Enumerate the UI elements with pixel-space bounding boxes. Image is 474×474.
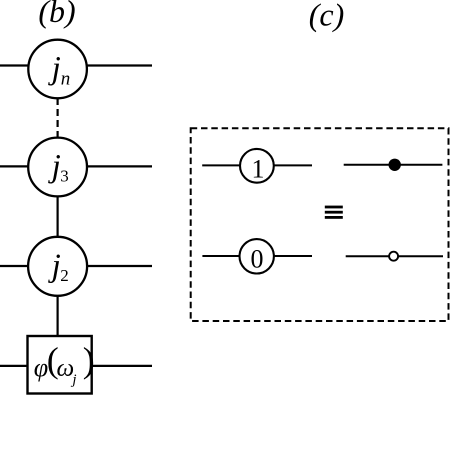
- wire row j3 left: [0, 165, 29, 167]
- svg-text:(b): (b): [38, 0, 75, 29]
- node jn: [28, 40, 87, 99]
- svg-text:(c): (c): [309, 0, 345, 33]
- wire row jn left: [0, 64, 29, 66]
- wire row phi right: [92, 365, 152, 367]
- control dot open: [389, 252, 398, 261]
- gate phi(omega_j) box: [28, 336, 95, 394]
- wire row j3 right: [87, 165, 153, 167]
- wire vertical j3-j2: [56, 196, 58, 237]
- svg-text:3: 3: [60, 167, 69, 186]
- wire row2 right segment: [346, 255, 443, 257]
- wire row j2 right: [87, 265, 152, 267]
- control dot filled: [389, 159, 401, 171]
- node |1>: [240, 149, 274, 183]
- svg-text:2: 2: [60, 266, 69, 285]
- wire row jn right: [87, 64, 153, 66]
- node j2: [28, 237, 87, 296]
- wire row1 left segment: [202, 164, 240, 166]
- dashed equivalence box: [191, 128, 449, 321]
- wire row1 right segment: [344, 164, 443, 166]
- node j3: [28, 138, 87, 197]
- svg-text:0: 0: [251, 245, 264, 274]
- wire row2 middle segment: [274, 255, 312, 257]
- node |0>: [240, 239, 274, 273]
- wire row2 left segment: [202, 255, 240, 257]
- svg-text:): ): [83, 340, 95, 380]
- wire row j2 left: [0, 265, 29, 267]
- wire vertical j2-box: [56, 296, 58, 336]
- equivalence symbol: [325, 206, 343, 219]
- wire dashed vertical jn-j3: [56, 98, 58, 137]
- svg-text:1: 1: [252, 154, 265, 183]
- wire row1 middle segment: [274, 164, 312, 166]
- svg-text:n: n: [61, 69, 71, 90]
- wire row phi left: [0, 365, 28, 367]
